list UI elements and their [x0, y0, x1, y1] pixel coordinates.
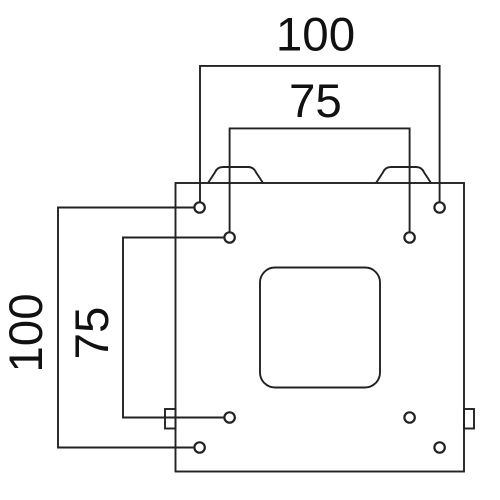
left hook bump [208, 167, 263, 183]
hole 75 top-left [224, 232, 234, 242]
hole 100 bottom-left [194, 442, 204, 452]
right tab [464, 409, 474, 429]
dimension line 100 top [200, 66, 440, 202]
dimension line 100 left [58, 208, 194, 448]
svg-text:75: 75 [289, 75, 342, 128]
dimension line 75 top [230, 128, 410, 231]
svg-text:75: 75 [66, 307, 119, 360]
svg-text:100: 100 [276, 9, 355, 62]
plate outline [176, 183, 465, 472]
left tab [165, 409, 176, 429]
hole 100 top-left [194, 202, 204, 212]
hole 75 bottom-right [404, 412, 414, 422]
hole 100 bottom-right [434, 442, 444, 452]
svg-text:100: 100 [0, 293, 53, 372]
center cutout [260, 268, 380, 388]
hole 75 bottom-left [224, 412, 234, 422]
hole 100 top-right [434, 202, 444, 212]
dimension line 75 left [123, 238, 224, 418]
hole 75 top-right [404, 232, 414, 242]
right hook bump [376, 167, 431, 183]
